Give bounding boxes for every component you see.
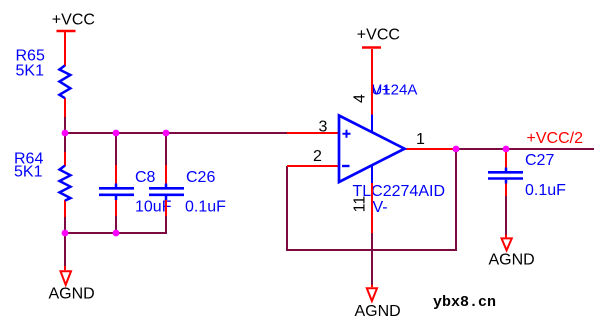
svg-text:U124A: U124A (372, 82, 418, 99)
svg-text:5K1: 5K1 (14, 164, 43, 181)
svg-text:TLC2274AID: TLC2274AID (353, 183, 446, 200)
svg-text:C8: C8 (135, 169, 156, 186)
svg-text:ybx8.cn: ybx8.cn (433, 294, 496, 311)
svg-text:+VCC: +VCC (357, 27, 400, 44)
svg-text:5K1: 5K1 (16, 62, 45, 79)
svg-text:C27: C27 (525, 152, 554, 169)
svg-text:+VCC: +VCC (52, 12, 95, 29)
svg-text:4: 4 (352, 94, 369, 103)
svg-text:AGND: AGND (355, 303, 401, 320)
svg-text:0.1uF: 0.1uF (525, 182, 566, 199)
svg-text:AGND: AGND (489, 252, 535, 269)
svg-text:AGND: AGND (49, 286, 95, 303)
svg-text:C26: C26 (186, 169, 215, 186)
svg-text:+VCC/2: +VCC/2 (527, 130, 584, 147)
svg-text:2: 2 (313, 148, 322, 165)
svg-text:0.1uF: 0.1uF (185, 199, 226, 216)
svg-text:V-: V- (373, 199, 388, 216)
svg-text:1: 1 (416, 131, 425, 148)
